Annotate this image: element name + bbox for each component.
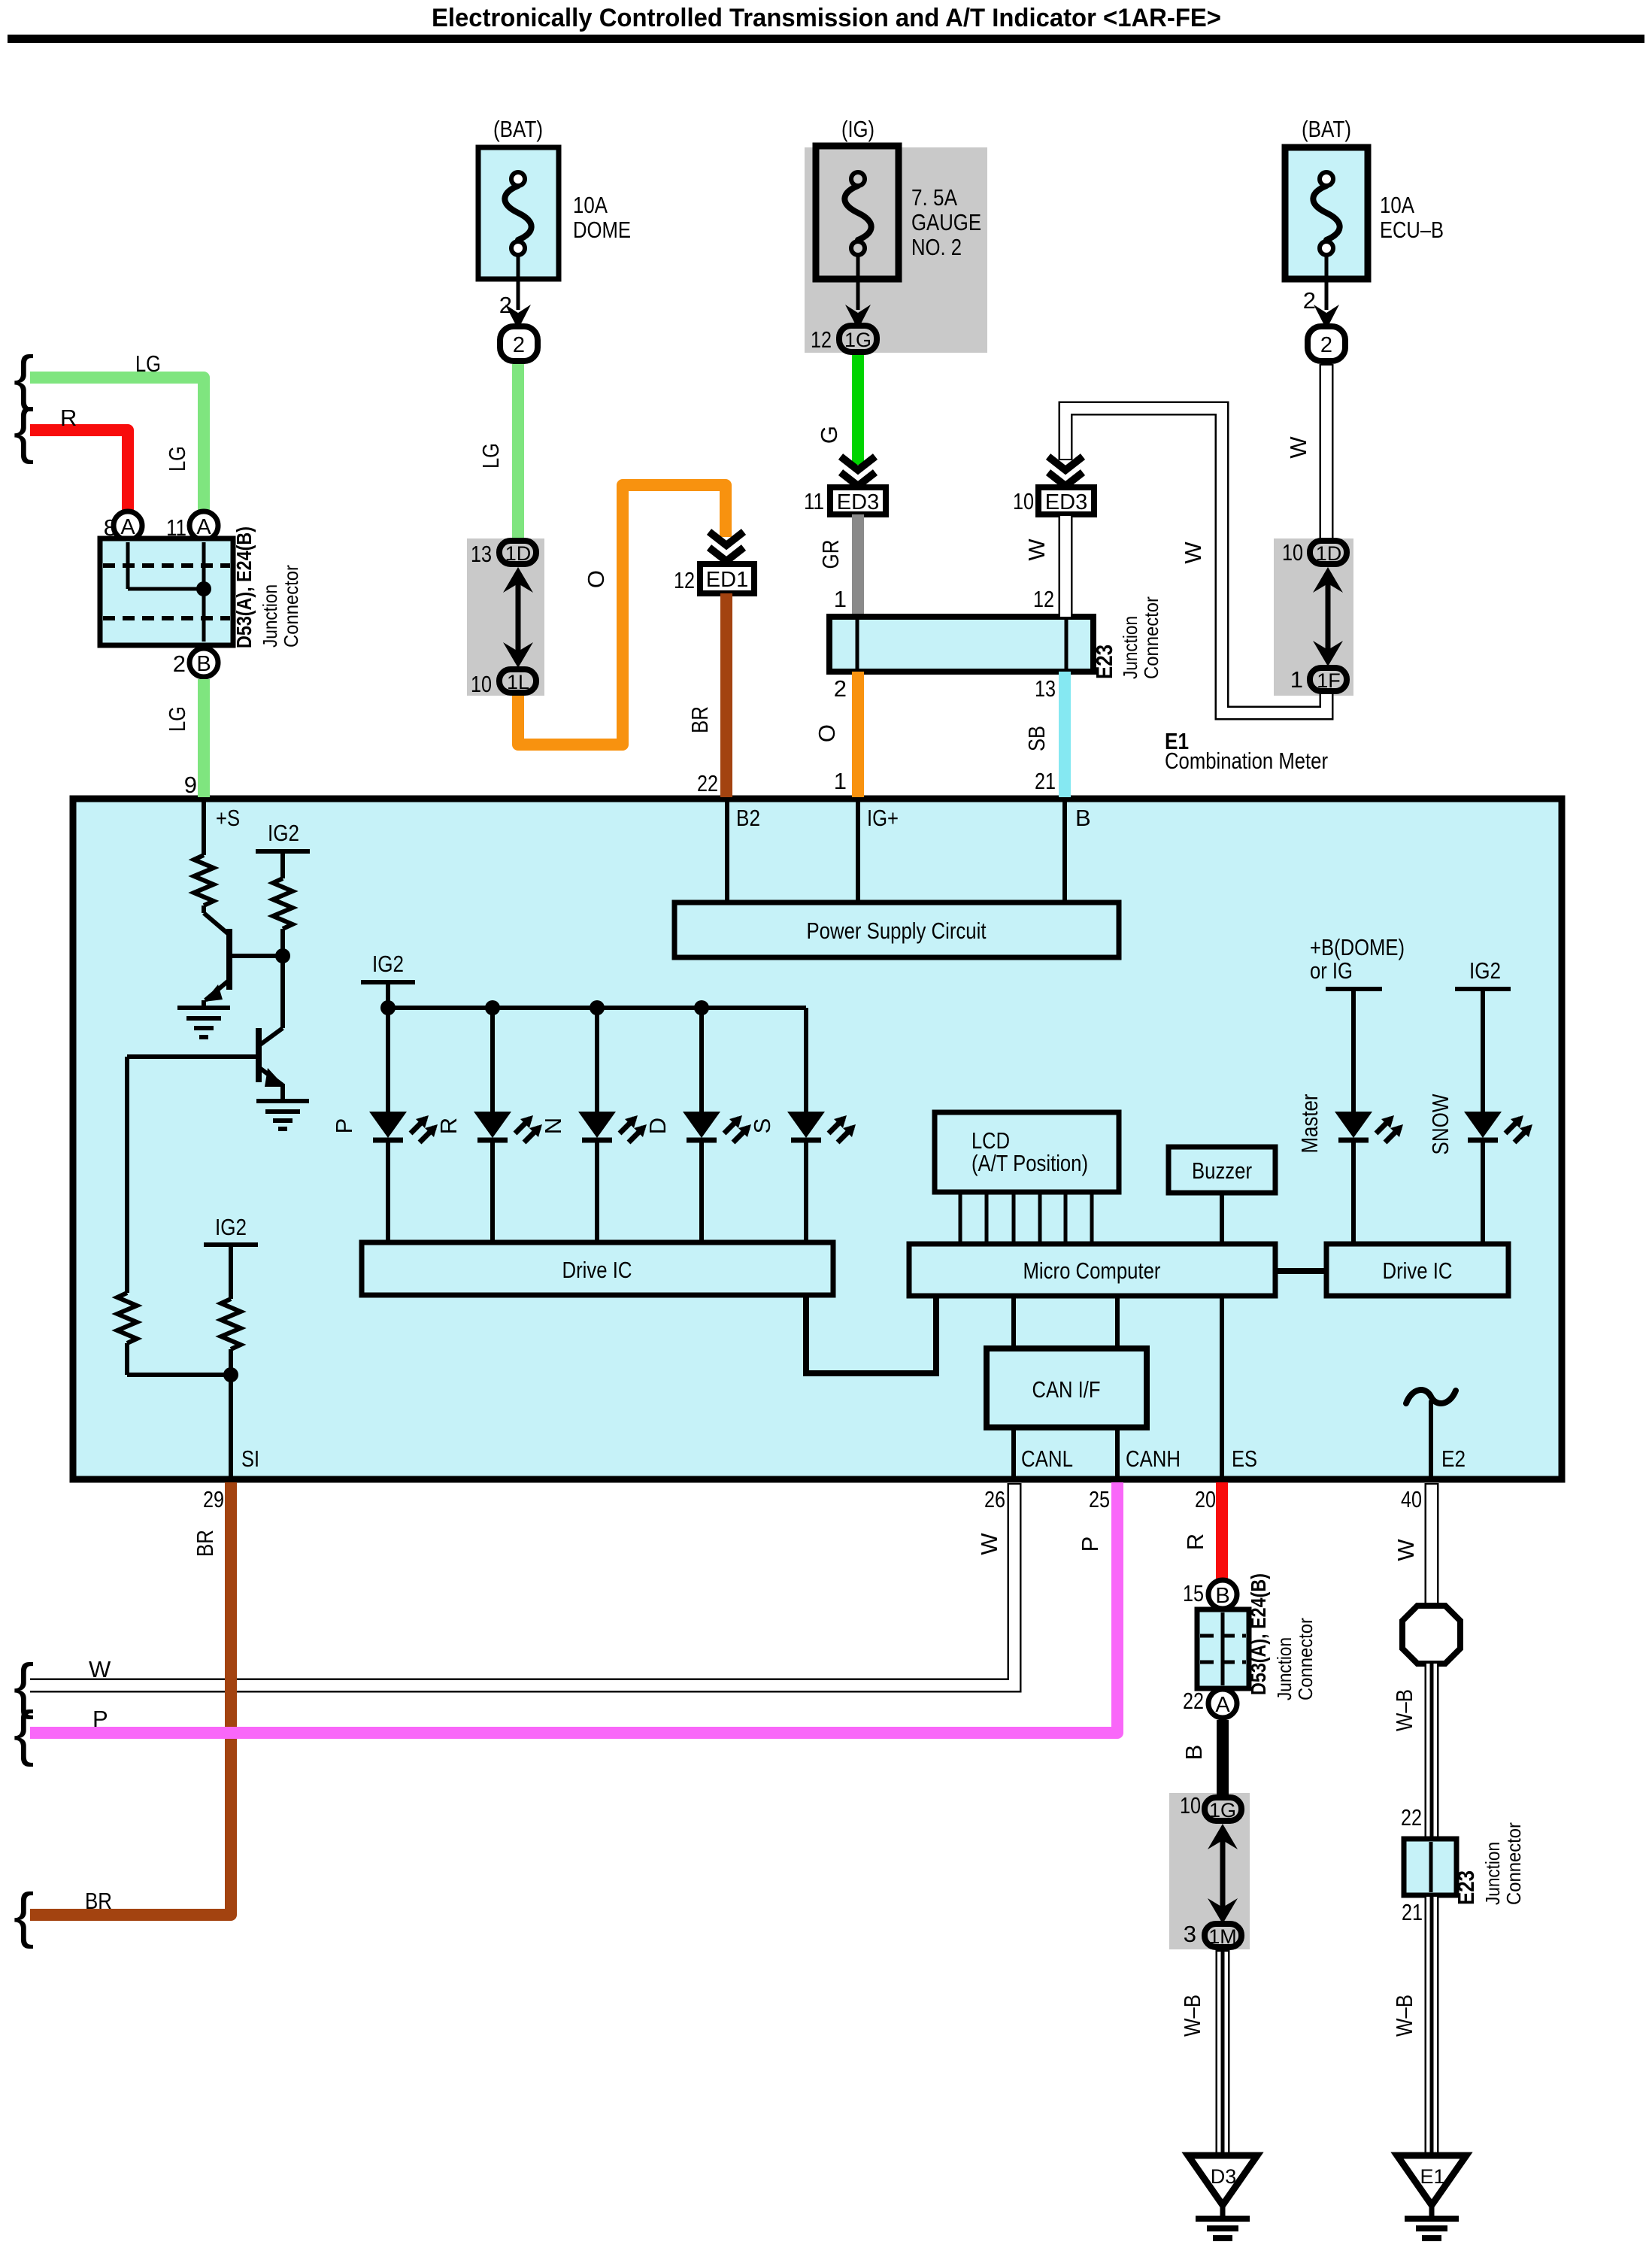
- pin 8 label: [104, 514, 117, 541]
- pin 9 label +S: [184, 772, 197, 798]
- svg-text:(A/T Position): (A/T Position): [971, 1150, 1088, 1176]
- arrow into connector 2 dome: [505, 305, 531, 329]
- label W-B wire d3: [1179, 1995, 1205, 2037]
- svg-text:B: B: [1181, 1745, 1207, 1761]
- node IG2 third: [204, 1214, 258, 1299]
- connector oval 1G: [839, 326, 877, 352]
- node junction dot IG2-Q1: [275, 948, 290, 963]
- arrow into connector 1G: [845, 305, 871, 329]
- svg-text:20: 20: [1195, 1486, 1216, 1512]
- wire buzzer to micro: [1220, 1193, 1224, 1244]
- pin 3 label 1M: [1184, 1921, 1196, 1947]
- svg-text:2: 2: [173, 651, 186, 677]
- wire micro to drive IC right: [1275, 1268, 1326, 1274]
- gray block 1D-1L: [467, 538, 544, 696]
- wire GR ED3 to E23: [852, 514, 864, 617]
- svg-text:SNOW: SNOW: [1427, 1094, 1453, 1155]
- svg-text:GAUGE: GAUGE: [911, 209, 981, 235]
- wire ES micro to pin: [1220, 1296, 1224, 1476]
- svg-text:W–B: W–B: [1391, 1689, 1417, 1731]
- svg-text:29: 29: [203, 1486, 224, 1512]
- brace LG stub: [14, 344, 34, 412]
- label E23 small junction connector: [1453, 1822, 1525, 1905]
- svg-text:B2: B2: [736, 805, 760, 831]
- svg-text:9: 9: [184, 772, 197, 798]
- label ES: [1232, 1445, 1257, 1472]
- connector circle A no22: [1208, 1689, 1237, 1718]
- label LG vertical d53: [164, 446, 190, 472]
- LED R: [474, 1008, 542, 1242]
- connector circle B no15: [1208, 1580, 1237, 1609]
- svg-text:21: 21: [1402, 1899, 1423, 1925]
- svg-text:CANH: CANH: [1126, 1445, 1181, 1472]
- wire G 1G to ED3: [852, 355, 864, 465]
- label P stub: [92, 1706, 108, 1732]
- svg-text:2: 2: [513, 333, 525, 357]
- label LED D: [644, 1118, 671, 1134]
- wire W-B 1M to D3: [1216, 1950, 1230, 2155]
- svg-text:D3: D3: [1211, 2165, 1237, 2188]
- svg-text:ED1: ED1: [706, 568, 748, 592]
- connector oval 1F: [1310, 668, 1347, 692]
- svg-text:G: G: [816, 426, 842, 444]
- svg-text:B: B: [196, 652, 211, 676]
- svg-text:ECU–B: ECU–B: [1380, 217, 1444, 243]
- label 10A DOME: [573, 192, 631, 243]
- svg-text:25: 25: [1089, 1486, 1110, 1512]
- svg-text:S: S: [749, 1118, 775, 1134]
- svg-text:LG: LG: [164, 446, 190, 472]
- wire W E2 to octagon: [1425, 1483, 1439, 1609]
- svg-text:B: B: [1075, 805, 1091, 831]
- gray block 1G-1M: [1169, 1793, 1250, 1949]
- pin 10 label 1D no10: [1282, 539, 1303, 566]
- svg-text:A: A: [196, 515, 211, 539]
- wire LG stub left: [30, 378, 204, 510]
- brace R stub: [14, 396, 34, 465]
- svg-text:O: O: [814, 724, 840, 742]
- double arrow 1D to 1F: [1313, 567, 1343, 666]
- svg-text:LG: LG: [135, 350, 161, 377]
- svg-text:22: 22: [1183, 1688, 1204, 1714]
- brace P stub: [14, 1699, 34, 1767]
- svg-text:Junction: Junction: [259, 584, 281, 648]
- node IG2 fourth: [1455, 957, 1511, 1113]
- chevron into ED3 no10: [1048, 457, 1083, 486]
- svg-text:7. 5A: 7. 5A: [911, 184, 957, 211]
- svg-text:+S: +S: [216, 805, 240, 831]
- svg-text:W–B: W–B: [1391, 1995, 1417, 2037]
- pin 21 label E23 small: [1402, 1899, 1423, 1925]
- transistor Q1: [204, 913, 283, 1008]
- svg-text:1M: 1M: [1208, 1925, 1237, 1948]
- svg-text:GR: GR: [817, 540, 844, 569]
- svg-text:LG: LG: [164, 706, 190, 732]
- svg-text:1: 1: [1290, 666, 1303, 693]
- wire B2 to power supply: [725, 802, 729, 902]
- resistor R3: [117, 1293, 231, 1375]
- svg-text:LG: LG: [477, 443, 504, 469]
- label R vertical es: [1182, 1533, 1208, 1550]
- connector box ED1: [700, 564, 754, 593]
- wire fuse ECU-B pin 2: [1325, 256, 1329, 310]
- combination meter box E1: [73, 799, 1562, 1479]
- fuse 10A ECU-B: [1285, 147, 1368, 279]
- connector box ED3 no11: [830, 487, 886, 514]
- label R stub: [60, 405, 77, 431]
- svg-text:1G: 1G: [1209, 1799, 1236, 1822]
- svg-text:1G: 1G: [844, 329, 871, 351]
- gray block fuse GAUGE: [805, 147, 987, 353]
- drive IC right box: [1326, 1244, 1508, 1296]
- pin 1 label E23 top: [834, 586, 847, 612]
- pin 22 label B2: [697, 770, 718, 796]
- wire fuse GAUGE pin 12: [856, 256, 860, 310]
- pin 12 label 1G: [811, 326, 832, 353]
- connector circle B no2: [189, 648, 218, 677]
- LED N: [578, 1008, 647, 1242]
- svg-text:12: 12: [674, 567, 695, 593]
- chevron into ED3 no11: [841, 457, 875, 486]
- svg-text:Junction: Junction: [1273, 1637, 1296, 1700]
- svg-text:1: 1: [834, 586, 847, 612]
- connector oval 2 dome: [500, 326, 538, 361]
- chevron into ED1: [709, 532, 744, 561]
- wire micro to CAN IF right: [1115, 1296, 1120, 1348]
- svg-text:IG2: IG2: [215, 1214, 247, 1240]
- wire drive IC to micro U link: [806, 1295, 936, 1373]
- svg-text:2: 2: [1303, 287, 1316, 314]
- connector oval 1L: [499, 669, 536, 693]
- buzzer box: [1169, 1147, 1275, 1193]
- label O orange loop: [583, 570, 609, 588]
- wire BR SI to stub: [30, 1482, 231, 1915]
- svg-text:R: R: [435, 1118, 462, 1134]
- label D53 E24 junction connector upper: [232, 526, 302, 648]
- svg-text:13: 13: [471, 541, 492, 567]
- svg-text:BR: BR: [85, 1888, 112, 1914]
- title rule: [8, 35, 1644, 43]
- svg-text:W: W: [89, 1656, 111, 1682]
- pin 2 label ecub: [1303, 287, 1316, 314]
- svg-text:22: 22: [1401, 1804, 1422, 1831]
- svg-text:Connector: Connector: [1140, 596, 1162, 679]
- ground D3: [1188, 2155, 1257, 2238]
- svg-text:{: {: [14, 396, 34, 465]
- connector circle A no11: [189, 511, 218, 540]
- title: [432, 4, 1221, 32]
- wire B to power supply: [1062, 802, 1067, 902]
- pin 11 label ED3: [804, 488, 824, 514]
- micro computer box: [909, 1244, 1275, 1296]
- pin 12 label E23 top: [1033, 586, 1054, 612]
- svg-text:IG2: IG2: [268, 820, 299, 846]
- svg-text:IG+: IG+: [867, 805, 899, 831]
- pin 20 label: [1195, 1486, 1216, 1512]
- svg-text:Power Supply Circuit: Power Supply Circuit: [807, 918, 987, 944]
- pin 10 label 1L: [471, 671, 492, 697]
- wire SB E23 to meter B: [1059, 672, 1071, 797]
- gray block 1D-1F: [1274, 538, 1353, 696]
- svg-text:E23: E23: [1091, 645, 1117, 679]
- fuse 7.5A GAUGE NO.2: [816, 146, 899, 279]
- LCD box: [935, 1112, 1119, 1192]
- label CANL: [1021, 1445, 1073, 1472]
- svg-text:W: W: [976, 1533, 1002, 1555]
- label G wire: [816, 426, 842, 444]
- junction connector D53 E24 upper: [100, 538, 233, 645]
- pin 10 label 1G lower: [1180, 1792, 1201, 1819]
- label SI: [241, 1445, 259, 1472]
- label LED N: [540, 1118, 566, 1134]
- label LED R: [435, 1118, 462, 1134]
- label W vertical e2: [1393, 1539, 1419, 1561]
- ground Q1: [177, 1008, 230, 1037]
- svg-text:D53(A), E24(B): D53(A), E24(B): [1247, 1573, 1270, 1695]
- junction connector E23 small: [1404, 1839, 1456, 1895]
- svg-text:D53(A), E24(B): D53(A), E24(B): [232, 526, 256, 648]
- LED Master: [1335, 1112, 1403, 1244]
- label GR wire: [817, 540, 844, 569]
- wire fuse DOME pin 2: [517, 256, 520, 310]
- svg-text:ES: ES: [1232, 1445, 1257, 1472]
- svg-text:10A: 10A: [1380, 192, 1414, 218]
- pin 29 label: [203, 1486, 224, 1512]
- junction connector D53 E24 lower: [1197, 1609, 1249, 1688]
- label Master: [1296, 1094, 1323, 1154]
- LCD pins: [960, 1192, 1092, 1244]
- wire LG dome to 1D: [512, 364, 524, 538]
- svg-text:10: 10: [1180, 1792, 1201, 1819]
- octagon splice: [1402, 1606, 1460, 1664]
- fuse 10A DOME: [478, 147, 559, 279]
- svg-text:W–B: W–B: [1179, 1995, 1205, 2037]
- svg-text:1: 1: [834, 768, 847, 794]
- CAN IF box: [987, 1348, 1147, 1427]
- wire B black A to 1G: [1217, 1720, 1229, 1796]
- svg-text:15: 15: [1183, 1580, 1204, 1606]
- pin 1 label IG+: [834, 768, 847, 794]
- ground E1: [1397, 2155, 1466, 2238]
- label (IG): [841, 116, 874, 142]
- pin 21 label B: [1035, 768, 1056, 794]
- pin 2 label E23 bottom: [834, 675, 847, 702]
- svg-text:E23: E23: [1453, 1870, 1479, 1905]
- svg-text:B: B: [1215, 1584, 1229, 1608]
- brace W stub: [14, 1652, 34, 1720]
- pin 1 label 1F: [1290, 666, 1303, 693]
- pin 22 label E23 small: [1401, 1804, 1422, 1831]
- svg-text:10: 10: [1282, 539, 1303, 566]
- svg-text:12: 12: [811, 326, 832, 353]
- svg-text:Micro Computer: Micro Computer: [1023, 1257, 1161, 1284]
- svg-text:13: 13: [1035, 675, 1056, 702]
- label E1 combination meter: [1165, 728, 1328, 774]
- label P vertical canh: [1077, 1536, 1103, 1552]
- brace BR stub: [14, 1881, 34, 1949]
- svg-text:Master: Master: [1296, 1094, 1323, 1154]
- node +B DOME or IG: [1310, 934, 1405, 1113]
- node IG2 second: [361, 951, 415, 1008]
- label LG dome wire: [477, 443, 504, 469]
- connector oval 1D: [499, 541, 536, 565]
- wire W ecub to 1D no10: [1320, 364, 1334, 538]
- svg-text:or IG: or IG: [1310, 957, 1353, 984]
- svg-text:W: W: [1023, 538, 1050, 561]
- svg-text:Connector: Connector: [1294, 1618, 1317, 1700]
- ground Q2: [256, 1101, 309, 1129]
- transistor Q2: [127, 956, 285, 1101]
- label LED P: [331, 1118, 357, 1134]
- svg-text:Junction: Junction: [1481, 1842, 1504, 1905]
- svg-text:Drive IC: Drive IC: [1383, 1257, 1453, 1284]
- label BR vertical: [192, 1530, 218, 1557]
- label W-B octagon: [1391, 1689, 1417, 1731]
- svg-text:SI: SI: [241, 1445, 259, 1472]
- label W loop vertical: [1180, 541, 1206, 564]
- wire LG d53 to meter +S: [198, 679, 210, 797]
- wire W-B E23 to E1: [1425, 1895, 1439, 2155]
- svg-text:D: D: [644, 1118, 671, 1134]
- svg-text:DOME: DOME: [573, 217, 631, 243]
- svg-text:12: 12: [1033, 586, 1054, 612]
- svg-text:26: 26: [984, 1486, 1005, 1512]
- svg-text:P: P: [92, 1706, 108, 1732]
- svg-text:P: P: [331, 1118, 357, 1134]
- wire IG+ to power supply: [856, 802, 860, 902]
- svg-text:E2: E2: [1441, 1445, 1466, 1472]
- svg-text:3: 3: [1184, 1921, 1196, 1947]
- connector oval 1M: [1205, 1924, 1241, 1948]
- double arrow 1G to 1M: [1208, 1824, 1238, 1924]
- wire CANH: [1115, 1427, 1120, 1476]
- svg-text:(BAT): (BAT): [493, 116, 543, 142]
- svg-text:BR: BR: [687, 706, 713, 733]
- svg-text:21: 21: [1035, 768, 1056, 794]
- junction connector E23: [829, 617, 1093, 672]
- wire O E23 to meter IG+: [852, 672, 864, 797]
- svg-text:P: P: [1077, 1536, 1103, 1552]
- label B wire black: [1181, 1745, 1207, 1761]
- pin 12 label ED1: [674, 567, 695, 593]
- wire CANL: [1011, 1427, 1016, 1476]
- wire Q2 base to SI branch: [125, 1057, 129, 1293]
- pin 13 label: [471, 541, 492, 567]
- label SNOW: [1427, 1094, 1453, 1155]
- svg-text:2: 2: [834, 675, 847, 702]
- svg-text:+B(DOME): +B(DOME): [1310, 934, 1405, 960]
- resistor R1: [194, 855, 214, 913]
- label W vertical canl: [976, 1533, 1002, 1555]
- svg-text:1F: 1F: [1317, 669, 1341, 692]
- wire R stub left: [30, 430, 128, 510]
- label B2: [736, 805, 760, 831]
- power supply circuit box: [674, 902, 1119, 957]
- pin 2 label dome: [499, 292, 512, 318]
- pin 25 label: [1089, 1486, 1110, 1512]
- label (BAT) dome: [493, 116, 543, 142]
- svg-text:IG2: IG2: [372, 951, 404, 977]
- svg-text:CAN I/F: CAN I/F: [1032, 1376, 1101, 1403]
- svg-text:ED3: ED3: [837, 490, 879, 514]
- svg-text:10: 10: [1013, 488, 1034, 514]
- arrow into connector 2 ecub: [1314, 305, 1339, 329]
- connector circle A no8: [114, 511, 142, 540]
- connector box ED3 no10: [1038, 487, 1094, 514]
- svg-text:CANL: CANL: [1021, 1445, 1073, 1472]
- svg-text:Junction: Junction: [1119, 616, 1141, 679]
- label LG stub: [135, 350, 161, 377]
- svg-text:1L: 1L: [507, 671, 529, 693]
- svg-text:Buzzer: Buzzer: [1192, 1157, 1252, 1184]
- svg-text:(BAT): (BAT): [1302, 116, 1351, 142]
- wire W loop ED3 no10 to 1F: [1065, 408, 1326, 713]
- svg-text:Connector: Connector: [1502, 1822, 1525, 1905]
- label 7.5A GAUGE NO.2: [911, 184, 981, 260]
- label O wire 2: [814, 724, 840, 742]
- resistor R4: [221, 1299, 241, 1476]
- double arrow 1D to 1L: [503, 567, 533, 668]
- wire R ES to B circle: [1216, 1482, 1228, 1579]
- pin 15 label: [1183, 1580, 1204, 1606]
- svg-text:W: W: [1285, 436, 1311, 459]
- svg-text:A: A: [120, 515, 135, 539]
- wire LED bus: [380, 1000, 806, 1015]
- wire P CANH to stub: [30, 1482, 1117, 1733]
- svg-text:Electronically Controlled Tran: Electronically Controlled Transmission a…: [432, 4, 1221, 32]
- pin 40 label: [1401, 1486, 1422, 1512]
- resistor R2: [273, 878, 293, 956]
- label BR wire: [687, 706, 713, 733]
- svg-text:A: A: [1215, 1693, 1230, 1717]
- node +S: [204, 802, 240, 855]
- svg-text:N: N: [540, 1118, 566, 1134]
- svg-text:2: 2: [1320, 333, 1332, 357]
- pin 11 label: [166, 514, 186, 541]
- label W stub: [89, 1656, 111, 1682]
- wire O orange loop 1L to ED1: [518, 485, 726, 745]
- pin 22 label A lower: [1183, 1688, 1204, 1714]
- pin 13 label E23 bottom: [1035, 675, 1056, 702]
- svg-text:{: {: [14, 1881, 34, 1949]
- wire W CANL to stub: [30, 1483, 1014, 1685]
- svg-text:40: 40: [1401, 1486, 1422, 1512]
- label D53 E24 junction connector lower: [1247, 1573, 1317, 1700]
- svg-text:1D: 1D: [1316, 542, 1342, 565]
- node IG2 first: [256, 820, 310, 878]
- connector oval 1G lower: [1205, 1797, 1241, 1822]
- drive IC left box: [362, 1242, 833, 1295]
- svg-text:O: O: [583, 570, 609, 588]
- label BR stub: [85, 1888, 112, 1914]
- connector oval 2 ecub: [1308, 326, 1345, 361]
- svg-text:IG2: IG2: [1469, 957, 1501, 984]
- label 10A ECU-B: [1380, 192, 1444, 243]
- LED P: [369, 1008, 438, 1242]
- wire BR ED1 to meter B2: [720, 593, 732, 797]
- svg-text:(IG): (IG): [841, 116, 874, 142]
- node E2 squiggle: [1406, 1390, 1456, 1476]
- label E23 junction connector: [1091, 596, 1162, 679]
- svg-text:W: W: [1180, 541, 1206, 564]
- label SB wire: [1023, 726, 1050, 751]
- label W wire ED3-E23: [1023, 538, 1050, 561]
- svg-text:10: 10: [471, 671, 492, 697]
- svg-text:Combination Meter: Combination Meter: [1165, 748, 1328, 774]
- svg-text:ED3: ED3: [1045, 490, 1087, 514]
- svg-text:SB: SB: [1023, 726, 1050, 751]
- svg-text:R: R: [1182, 1533, 1208, 1550]
